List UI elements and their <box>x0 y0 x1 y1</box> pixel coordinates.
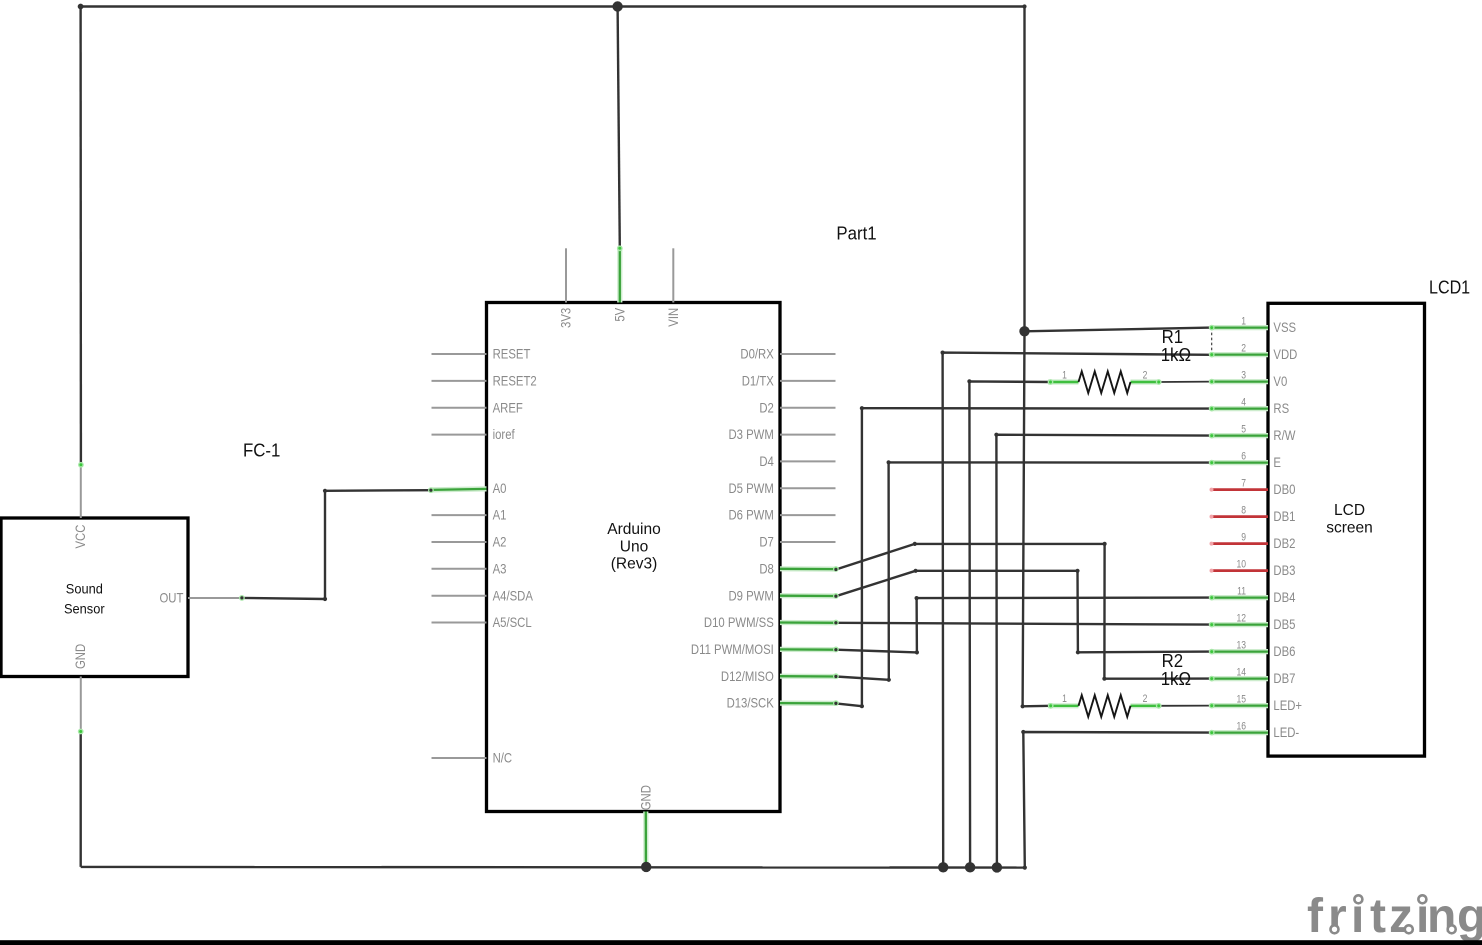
svg-text:2: 2 <box>1241 343 1246 355</box>
svg-text:VSS: VSS <box>1273 320 1296 335</box>
svg-text:2: 2 <box>1143 693 1148 705</box>
svg-text:9: 9 <box>1241 532 1246 544</box>
svg-text:D4: D4 <box>759 454 774 469</box>
svg-text:f: f <box>1307 890 1324 943</box>
svg-text:DB1: DB1 <box>1273 509 1295 524</box>
svg-text:DB6: DB6 <box>1273 644 1295 659</box>
svg-text:12: 12 <box>1236 613 1246 625</box>
svg-text:LED+: LED+ <box>1273 698 1302 713</box>
svg-text:VIN: VIN <box>666 308 681 327</box>
svg-text:15: 15 <box>1236 694 1246 706</box>
svg-text:Sound: Sound <box>66 581 103 596</box>
svg-text:V0: V0 <box>1273 374 1287 389</box>
svg-text:D13/SCK: D13/SCK <box>727 696 775 711</box>
svg-text:1kΩ: 1kΩ <box>1161 344 1191 365</box>
svg-text:3V3: 3V3 <box>559 308 574 328</box>
svg-text:14: 14 <box>1236 667 1246 679</box>
svg-text:D3 PWM: D3 PWM <box>728 427 773 442</box>
svg-text:D0/RX: D0/RX <box>740 347 774 362</box>
svg-text:DB3: DB3 <box>1273 563 1295 578</box>
svg-text:A5/SCL: A5/SCL <box>493 615 532 630</box>
svg-text:1kΩ: 1kΩ <box>1161 668 1191 689</box>
svg-text:E: E <box>1273 455 1281 470</box>
svg-text:8: 8 <box>1241 505 1246 517</box>
svg-text:A0: A0 <box>493 481 507 496</box>
svg-text:D8: D8 <box>759 561 774 576</box>
svg-text:A3: A3 <box>493 561 507 576</box>
svg-text:D7: D7 <box>759 535 774 550</box>
svg-text:D2: D2 <box>759 400 774 415</box>
svg-text:AREF: AREF <box>493 400 524 415</box>
svg-text:N/C: N/C <box>493 751 513 766</box>
svg-text:5: 5 <box>1241 424 1246 436</box>
svg-text:D6 PWM: D6 PWM <box>728 508 773 523</box>
svg-text:VDD: VDD <box>1273 347 1297 362</box>
svg-text:RESET2: RESET2 <box>493 374 537 389</box>
svg-text:RESET: RESET <box>493 347 531 362</box>
svg-text:DB2: DB2 <box>1273 536 1295 551</box>
svg-text:D11 PWM/MOSI: D11 PWM/MOSI <box>691 642 774 657</box>
svg-text:11: 11 <box>1237 586 1246 598</box>
svg-text:Part1: Part1 <box>836 223 876 244</box>
svg-text:Sensor: Sensor <box>64 601 105 616</box>
svg-text:RS: RS <box>1273 401 1289 416</box>
svg-text:g: g <box>1457 890 1482 943</box>
svg-text:n: n <box>1427 890 1456 943</box>
svg-text:A1: A1 <box>493 508 507 523</box>
svg-text:DB4: DB4 <box>1273 590 1295 605</box>
svg-text:1: 1 <box>1062 369 1067 381</box>
svg-text:D10 PWM/SS: D10 PWM/SS <box>704 615 774 630</box>
svg-text:16: 16 <box>1236 721 1246 733</box>
svg-text:A4/SDA: A4/SDA <box>493 588 534 603</box>
svg-text:LCD1: LCD1 <box>1429 277 1470 298</box>
svg-text:R/W: R/W <box>1273 428 1295 443</box>
svg-text:z: z <box>1389 890 1413 943</box>
svg-text:GND: GND <box>638 785 653 810</box>
svg-text:D1/TX: D1/TX <box>742 374 775 389</box>
svg-text:DB0: DB0 <box>1273 482 1295 497</box>
svg-text:(Rev3): (Rev3) <box>611 555 658 572</box>
svg-text:D9 PWM: D9 PWM <box>728 588 773 603</box>
svg-text:DB7: DB7 <box>1273 671 1295 686</box>
svg-text:D12/MISO: D12/MISO <box>721 669 774 684</box>
svg-text:FC-1: FC-1 <box>243 440 280 461</box>
svg-text:1: 1 <box>1062 693 1067 705</box>
svg-text:3: 3 <box>1241 370 1246 382</box>
svg-text:Arduino: Arduino <box>607 521 661 538</box>
svg-text:1: 1 <box>1241 316 1246 328</box>
svg-text:2: 2 <box>1143 369 1148 381</box>
svg-text:13: 13 <box>1236 640 1246 652</box>
svg-text:LCD: LCD <box>1334 502 1365 519</box>
svg-text:GND: GND <box>73 644 88 669</box>
svg-text:5V: 5V <box>612 307 627 321</box>
svg-text:10: 10 <box>1236 559 1246 571</box>
svg-text:DB5: DB5 <box>1273 617 1295 632</box>
svg-text:A2: A2 <box>493 535 507 550</box>
svg-text:4: 4 <box>1241 397 1246 409</box>
svg-text:D5 PWM: D5 PWM <box>728 481 773 496</box>
svg-text:6: 6 <box>1241 451 1246 463</box>
svg-text:t: t <box>1370 890 1386 943</box>
svg-text:OUT: OUT <box>159 591 183 606</box>
svg-text:LED-: LED- <box>1273 725 1299 740</box>
svg-text:Uno: Uno <box>620 538 649 555</box>
svg-text:VCC: VCC <box>73 525 88 549</box>
svg-text:7: 7 <box>1241 478 1246 490</box>
svg-text:ioref: ioref <box>493 427 516 442</box>
svg-text:r: r <box>1328 890 1347 943</box>
svg-text:screen: screen <box>1326 519 1373 536</box>
